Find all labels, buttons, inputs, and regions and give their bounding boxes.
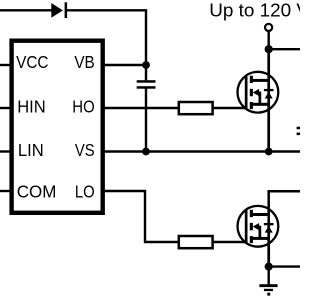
svg-text:HO: HO [72, 97, 94, 117]
diode D1 bootstrap triangle [51, 3, 63, 18]
svg-text:HIN: HIN [17, 97, 46, 117]
pin VCC stub [0, 64, 13, 66]
node HV bus junction dot [265, 45, 273, 53]
transistor Q1 high side mosfet [238, 72, 279, 113]
svg-text:V: V [296, 0, 300, 21]
wire VCC supply to diode anode [0, 9, 52, 11]
wire LO pin down and to gate resistor [101, 191, 180, 242]
svg-text:VS: VS [75, 140, 95, 160]
ground bar 3 [267, 293, 270, 296]
wire ground node down [268, 267, 270, 285]
capacitor C2 bus plate bottom [297, 133, 300, 136]
svg-text:LIN: LIN [18, 140, 44, 160]
svg-text:Up to 120: Up to 120 [209, 0, 291, 21]
wire bus node to right edge [269, 48, 300, 50]
wire VB node to capacitor [145, 65, 147, 80]
node ground junction dot [265, 263, 273, 271]
node VS phase junction dot [265, 148, 273, 156]
capacitor C2 bus plate top [297, 127, 300, 130]
wire HO pin to gate resistor [101, 107, 180, 109]
IC U1 gate driver box [12, 41, 103, 213]
wire VB pin stub [101, 64, 146, 66]
resistor R1 high side gate [179, 102, 213, 114]
svg-text:COM: COM [17, 182, 57, 202]
node VS capacitor junction dot [142, 148, 150, 156]
wire Q2 source to ground node [267, 226, 270, 267]
wire Q1 drain source rail [267, 49, 270, 151]
svg-text:VB: VB [74, 52, 94, 72]
node VB junction dot [142, 61, 150, 69]
wire diode cathode to VB node [66, 10, 146, 65]
diode D1 cathode bar [65, 2, 68, 18]
capacitor C1 top plate [137, 80, 156, 83]
pin HIN stub [0, 107, 13, 109]
pin COM stub [0, 190, 13, 192]
capacitor C1 bottom plate [137, 86, 156, 89]
wire ground node to right edge [269, 265, 300, 267]
wire resistor R1 to Q1 gate [212, 107, 247, 109]
wire capacitor to VS node [145, 89, 147, 152]
wire VS pin to right edge [101, 150, 300, 152]
pin LIN stub [0, 150, 13, 152]
svg-text:VCC: VCC [16, 52, 48, 72]
ground bar 2 [264, 289, 273, 291]
terminal HV bus circle [265, 24, 272, 31]
wire Q2 drain to right edge [269, 191, 300, 226]
wire terminal to bus node [268, 32, 270, 50]
resistor R2 low side gate [179, 236, 213, 248]
transistor Q2 low side mosfet [238, 206, 279, 247]
svg-text:LO: LO [75, 182, 95, 202]
ground bar 1 [259, 284, 277, 287]
wire resistor R2 to Q2 gate [212, 241, 247, 243]
